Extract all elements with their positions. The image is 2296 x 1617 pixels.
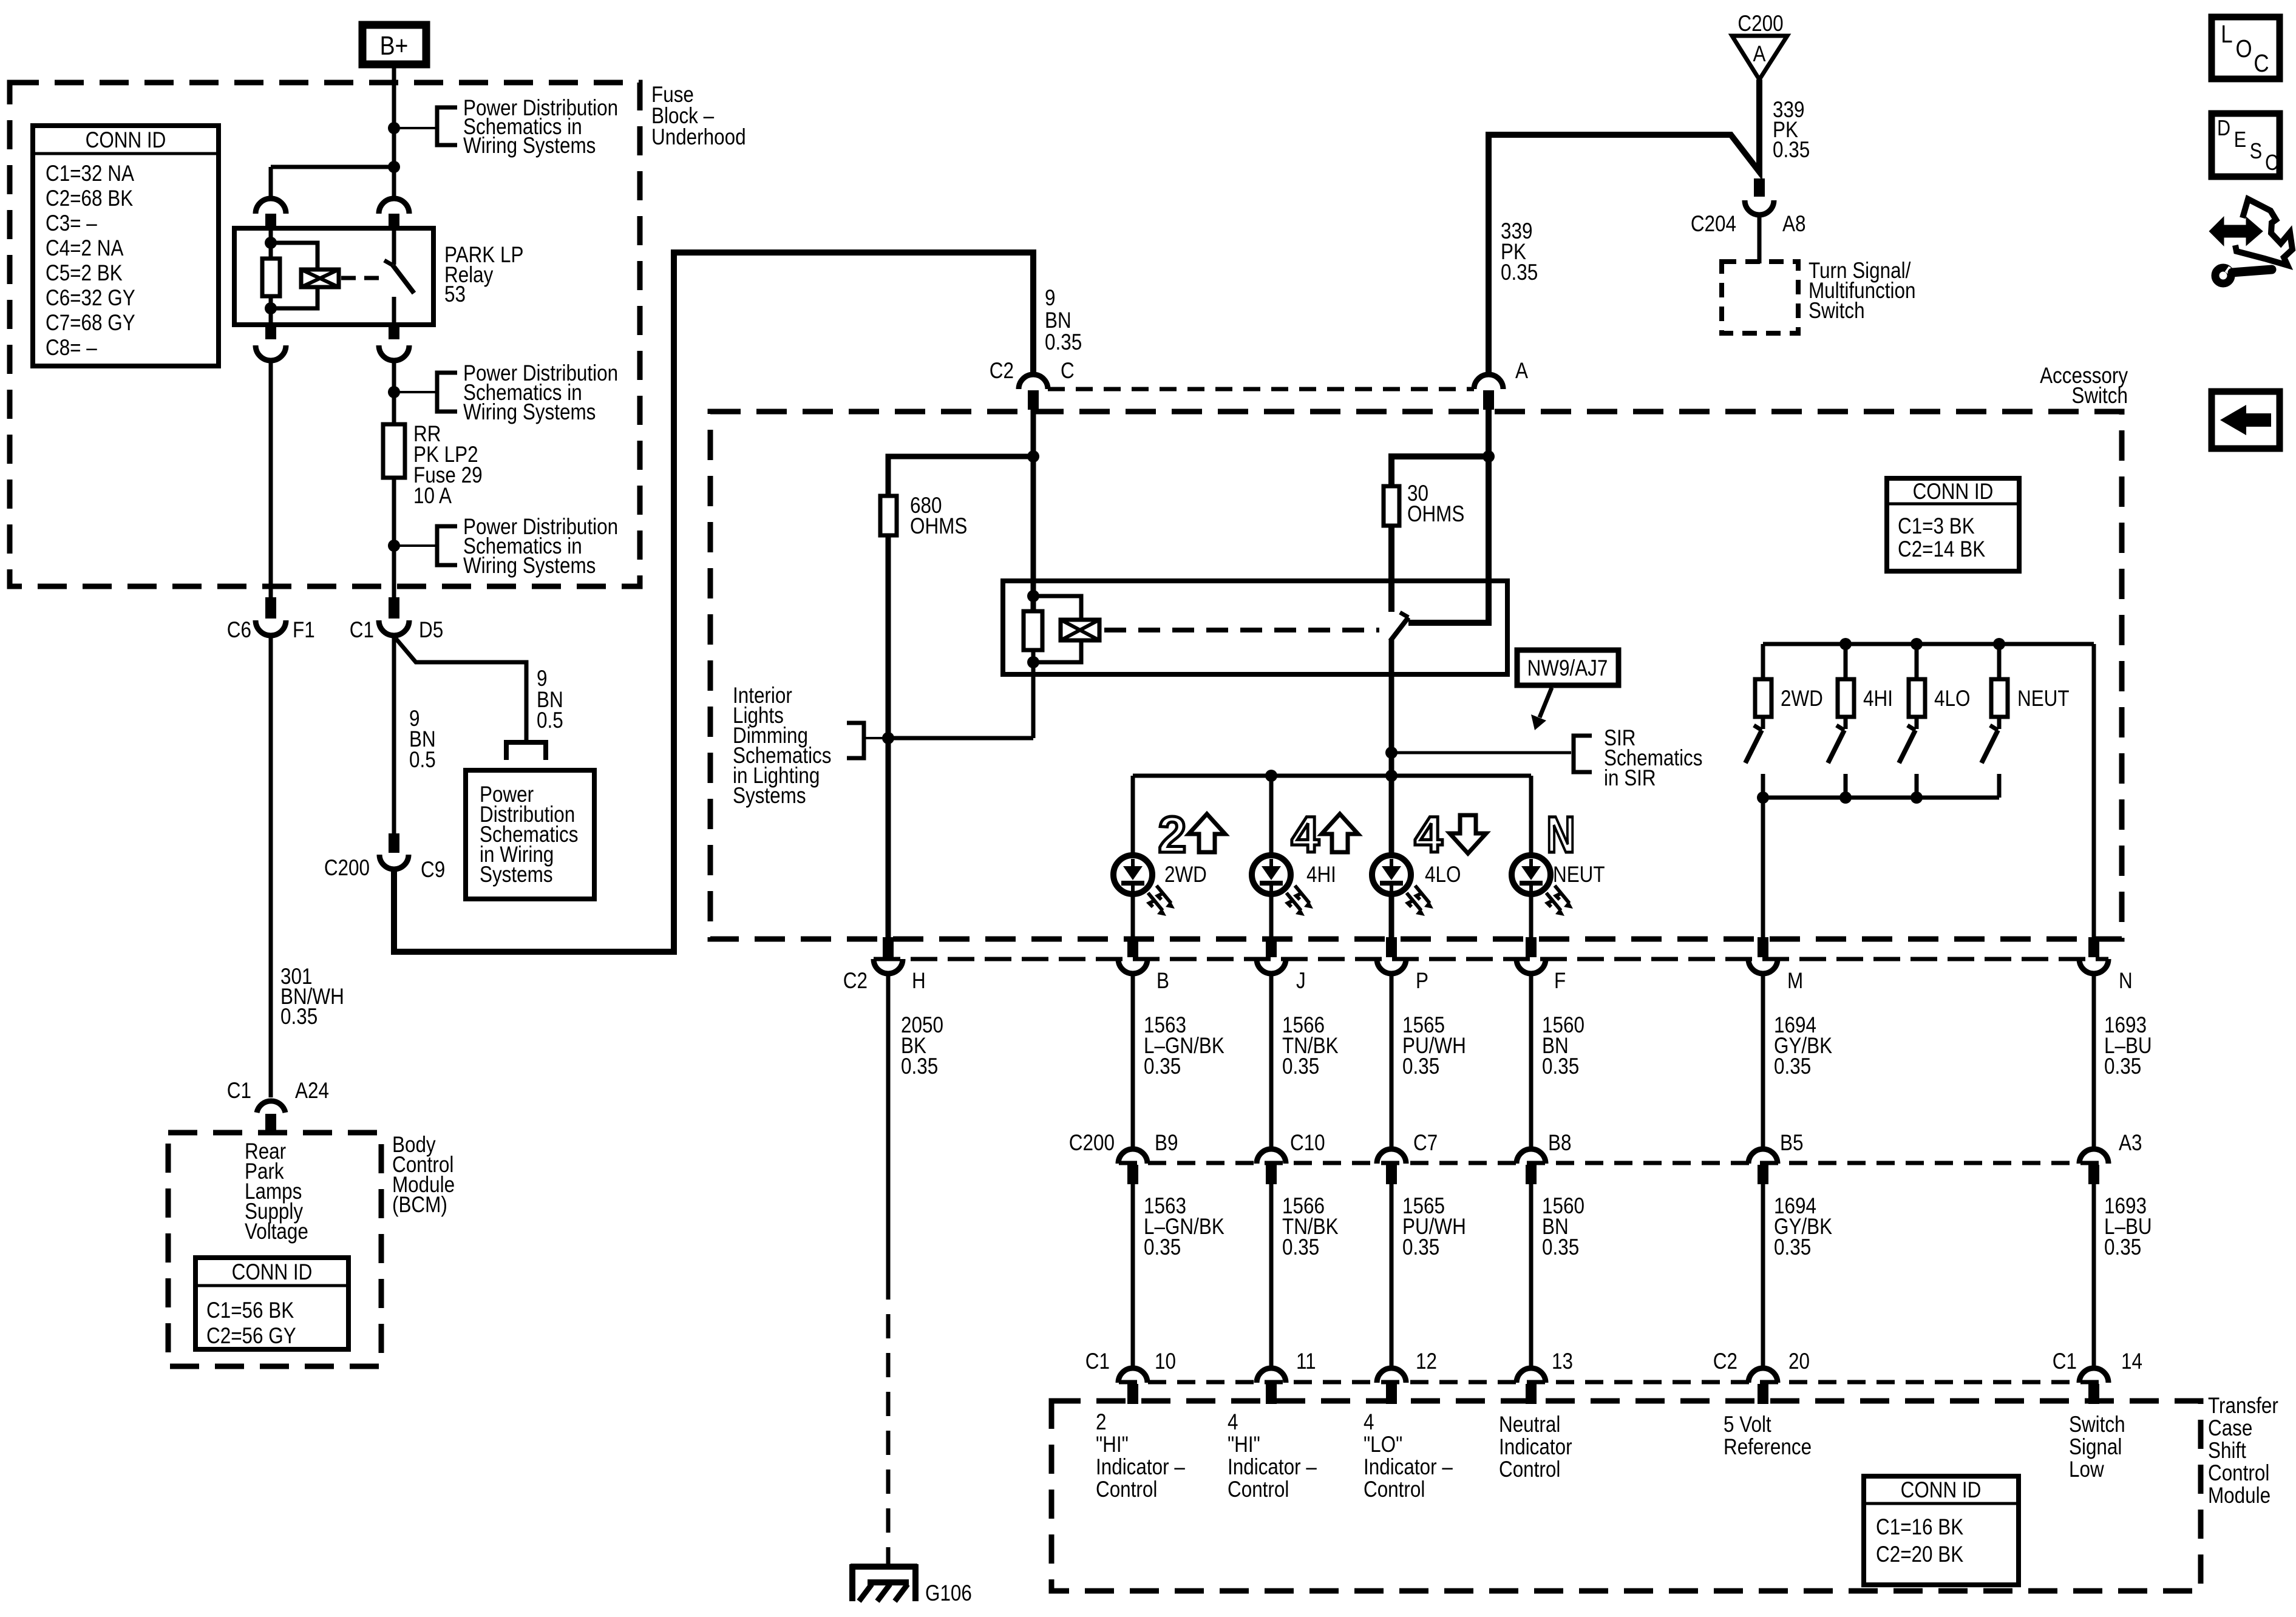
connector pin C10 xyxy=(1257,1131,1325,1184)
connector C200 C9 xyxy=(324,855,445,883)
wire P segment 2 xyxy=(1390,1184,1394,1369)
node junction 4HI switch xyxy=(1839,638,1852,650)
wire to 30 ohm resistor xyxy=(1391,456,1489,486)
svg-text:C1: C1 xyxy=(1085,1349,1110,1374)
wire tap 3 xyxy=(394,544,437,547)
svg-text:C2=56 GY: C2=56 GY xyxy=(206,1324,296,1349)
svg-text:2WD: 2WD xyxy=(1781,686,1823,711)
svg-text:Transfer: Transfer xyxy=(2208,1394,2278,1419)
label wire 1560 BN 0.35 lower xyxy=(1542,1194,1584,1260)
svg-text:P: P xyxy=(1416,969,1428,994)
svg-text:Voltage: Voltage xyxy=(245,1219,308,1244)
label Neutral Indicator Control xyxy=(1499,1412,1572,1482)
wire coil branch down xyxy=(269,167,273,198)
svg-text:B9: B9 xyxy=(1155,1131,1178,1156)
wire M segment 2 xyxy=(1761,1184,1765,1369)
svg-text:Systems: Systems xyxy=(480,863,553,887)
svg-text:0.35: 0.35 xyxy=(1501,260,1538,285)
LED 4LO indicator xyxy=(1372,855,1433,916)
svg-text:C1=56 BK: C1=56 BK xyxy=(206,1298,294,1323)
node coil bottom junction xyxy=(265,302,277,314)
switch blade NEUT xyxy=(1982,717,1999,798)
connector pin 11 xyxy=(1257,1349,1316,1404)
connector C2 pin 20 xyxy=(1713,1349,1810,1404)
pin relay switch top xyxy=(389,214,399,228)
label wire 1694 GY/BK 0.35 lower xyxy=(1774,1194,1832,1260)
svg-text:C8= –: C8= – xyxy=(46,336,98,361)
svg-text:Case: Case xyxy=(2208,1416,2252,1441)
pin C9 xyxy=(389,833,399,853)
reference box Power Distribution Schematics in Wiring Systems xyxy=(466,770,594,899)
svg-text:G106: G106 xyxy=(925,1581,972,1606)
svg-text:"HI": "HI" xyxy=(1228,1432,1260,1457)
connector C1 A24 xyxy=(227,1079,329,1113)
node junction power distribution tap 3 xyxy=(388,540,400,552)
icon 4 down arrow xyxy=(1415,806,1486,863)
svg-text:C200: C200 xyxy=(1069,1131,1115,1156)
dashed connector line row 1 xyxy=(874,957,2108,961)
connector C2 C xyxy=(990,359,1075,389)
dashed connector line C200 row xyxy=(1119,1161,2108,1165)
svg-text:C: C xyxy=(2254,50,2269,77)
switch blade 4HI xyxy=(1828,717,1846,798)
svg-text:Switch: Switch xyxy=(2071,384,2128,408)
wire SIR tap xyxy=(1391,751,1571,754)
wire N segment 2 xyxy=(2092,1184,2096,1369)
accessory switch dashed box xyxy=(710,412,2122,939)
label wire 1693 L-BU 0.35 upper xyxy=(2104,1013,2152,1079)
svg-text:C2=14 BK: C2=14 BK xyxy=(1898,537,1985,562)
svg-text:C1: C1 xyxy=(350,618,374,643)
wire mode switch feed bus xyxy=(1763,642,2094,646)
wire N segment 1 xyxy=(2092,974,2096,1150)
node coil top junction xyxy=(265,237,277,249)
wire B segment 1 xyxy=(1131,974,1135,1150)
connector pin 12 xyxy=(1377,1349,1437,1404)
relay K2 accessory switch lamp relay box xyxy=(1003,581,1507,674)
svg-text:in SIR: in SIR xyxy=(1604,766,1656,791)
icon DESC navigation box xyxy=(2212,114,2280,177)
LED NEUT indicator xyxy=(1512,855,1573,916)
resistor 2WD xyxy=(1755,679,1823,717)
label Transfer Case Shift Control Module xyxy=(2208,1394,2278,1508)
svg-text:C10: C10 xyxy=(1290,1131,1325,1156)
wire B+ feed down xyxy=(392,64,396,197)
svg-text:C5=2 BK: C5=2 BK xyxy=(46,261,123,286)
svg-text:2: 2 xyxy=(1158,806,1187,863)
wire switch bottom xyxy=(392,297,396,325)
svg-text:Indicator: Indicator xyxy=(1499,1435,1572,1460)
svg-text:0.35: 0.35 xyxy=(1282,1235,1319,1260)
svg-text:Control: Control xyxy=(1364,1477,1425,1502)
wire D5 vertical down xyxy=(392,637,396,833)
wire N branch xyxy=(2092,644,2096,937)
svg-text:53: 53 xyxy=(444,282,466,307)
svg-text:4LO: 4LO xyxy=(1425,863,1461,887)
connector arc relay pin 1 bottom xyxy=(256,345,286,361)
svg-text:B8: B8 xyxy=(1548,1131,1571,1156)
off-page reference SIR Schematics xyxy=(1574,726,1703,791)
svg-text:Switch: Switch xyxy=(2069,1412,2125,1437)
svg-text:4HI: 4HI xyxy=(1306,863,1336,887)
svg-text:(BCM): (BCM) xyxy=(392,1193,447,1218)
svg-text:NW9/AJ7: NW9/AJ7 xyxy=(1527,656,1608,681)
svg-text:C200: C200 xyxy=(1737,12,1783,36)
svg-text:Signal: Signal xyxy=(2069,1435,2122,1460)
svg-text:C1: C1 xyxy=(227,1079,251,1103)
off-page reference Power Distribution 3 xyxy=(437,515,618,578)
icon back arrow box xyxy=(2212,392,2280,449)
svg-text:J: J xyxy=(1296,969,1306,994)
pin F1 xyxy=(265,597,276,619)
svg-text:4: 4 xyxy=(1228,1410,1238,1435)
CONN ID table (transfer case module) xyxy=(1864,1476,2019,1585)
svg-text:0.35: 0.35 xyxy=(1774,1054,1811,1079)
CONN ID table (accessory switch) xyxy=(1887,478,2019,571)
svg-text:N: N xyxy=(1546,806,1575,863)
svg-text:0.35: 0.35 xyxy=(901,1054,938,1079)
svg-text:0.35: 0.35 xyxy=(1402,1054,1439,1079)
label wire 9 BN 0.35 xyxy=(1045,286,1082,355)
label 4 HI Indicator Control xyxy=(1228,1410,1317,1502)
svg-text:C204: C204 xyxy=(1691,212,1736,237)
label wire 301 BN/WH 0.35 xyxy=(280,964,344,1029)
wire jumper to relay coil branch xyxy=(271,165,394,169)
svg-text:0.35: 0.35 xyxy=(1542,1054,1579,1079)
svg-text:F: F xyxy=(1554,969,1566,994)
svg-text:0.5: 0.5 xyxy=(409,748,436,773)
connector C200 in-line reference triangle xyxy=(1732,12,1787,80)
svg-text:13: 13 xyxy=(1552,1349,1573,1374)
svg-text:0.5: 0.5 xyxy=(537,708,563,733)
connector pin C7 xyxy=(1377,1131,1438,1184)
svg-text:Indicator –: Indicator – xyxy=(1096,1455,1186,1480)
svg-text:F1: F1 xyxy=(293,618,315,643)
svg-text:A: A xyxy=(1753,42,1766,67)
node junction 30 ohm tap xyxy=(1483,450,1495,463)
svg-text:D5: D5 xyxy=(419,618,443,643)
relay K1 PARK LP Relay 53 box xyxy=(234,228,433,325)
pin relay coil top xyxy=(265,214,276,228)
label Accessory Switch xyxy=(2040,364,2128,408)
svg-text:B+: B+ xyxy=(380,30,409,61)
switch blade 4LO xyxy=(1899,717,1917,798)
label wire 1565 PU/WH 0.35 upper xyxy=(1402,1013,1466,1079)
connector pin M xyxy=(1748,937,1803,994)
svg-text:2WD: 2WD xyxy=(1164,863,1207,887)
node junction 4LO LED xyxy=(1385,770,1398,782)
node junction SIR tap xyxy=(1385,747,1398,759)
svg-text:0.35: 0.35 xyxy=(280,1005,318,1029)
label Rear Park Lamps Supply Voltage xyxy=(245,1139,308,1244)
wire 4HI LED branch xyxy=(1269,776,1274,937)
svg-text:Wiring Systems: Wiring Systems xyxy=(463,554,596,578)
resistor 4HI xyxy=(1838,679,1893,717)
wire interior lights dimming feed xyxy=(888,736,1033,741)
label wire 1560 BN 0.35 upper xyxy=(1542,1013,1584,1079)
label wire 339 PK 0.35 lower xyxy=(1501,219,1538,285)
svg-text:C7=68 GY: C7=68 GY xyxy=(46,311,135,336)
svg-text:Control: Control xyxy=(1096,1477,1157,1502)
resistor relay K2 internal xyxy=(1024,611,1042,650)
label wire 1563 L-GN/BK 0.35 lower xyxy=(1144,1194,1224,1260)
svg-text:Indicator –: Indicator – xyxy=(1364,1455,1453,1480)
wire 4LO switch branch xyxy=(1915,644,1919,679)
label 2 HI Indicator Control xyxy=(1096,1410,1186,1502)
label Turn Signal Multifunction Switch xyxy=(1809,259,1916,324)
wire 30 ohm to switch blade xyxy=(1388,526,1394,612)
svg-text:C1=32 NA: C1=32 NA xyxy=(46,161,134,186)
svg-text:Low: Low xyxy=(2069,1457,2104,1482)
label wire 2050 BK 0.35 xyxy=(901,1013,943,1079)
wire 4LO LED branch xyxy=(1390,891,1394,937)
svg-text:Reference: Reference xyxy=(1724,1435,1812,1460)
pin relay coil bottom xyxy=(265,325,276,339)
switch blade 2WD xyxy=(1745,717,1763,798)
wire to 680 ohm resistor xyxy=(888,456,1033,496)
turn signal multifunction switch dashed box xyxy=(1722,262,1798,333)
svg-text:Neutral: Neutral xyxy=(1499,1412,1560,1437)
fuse block dashed box xyxy=(10,83,640,586)
wire P segment 1 xyxy=(1390,974,1394,1150)
node junction to power distribution tap 1 xyxy=(388,122,400,134)
wire H dashed to ground xyxy=(886,1275,891,1564)
connector pin J xyxy=(1257,937,1306,994)
pin C xyxy=(1028,390,1039,410)
svg-text:0.35: 0.35 xyxy=(1774,1235,1811,1260)
callout box NW9/AJ7 xyxy=(1517,650,1618,730)
dashed actuation link K1 xyxy=(341,276,382,280)
wire left branch down to C6 F1 xyxy=(269,361,273,597)
svg-text:9: 9 xyxy=(1045,286,1055,311)
wire A down to switch xyxy=(1408,410,1489,623)
connector pin P xyxy=(1377,937,1428,994)
switch blade relay K1 xyxy=(384,260,414,293)
dashed actuation link K2 xyxy=(1104,628,1379,632)
svg-text:4LO: 4LO xyxy=(1934,686,1970,711)
node junction common 2WD xyxy=(1757,792,1769,804)
ground G106 xyxy=(851,1564,972,1606)
connector C1 pin 14 xyxy=(2053,1349,2142,1404)
resistor relay K1 internal xyxy=(262,259,280,296)
label wire 339 PK 0.35 upper xyxy=(1773,98,1810,163)
svg-text:0.35: 0.35 xyxy=(1045,330,1082,355)
off-page reference Power Distribution 2 xyxy=(437,361,618,425)
node junction common 4LO xyxy=(1911,792,1923,804)
wire 339 PK from C200 xyxy=(1489,80,1759,376)
svg-text:C6=32 GY: C6=32 GY xyxy=(46,286,135,311)
svg-text:C7: C7 xyxy=(1413,1131,1438,1156)
wire D5 diagonal branch xyxy=(396,639,526,742)
wire F segment 1 xyxy=(1529,974,1533,1150)
svg-text:Control: Control xyxy=(1499,1457,1560,1482)
svg-text:A: A xyxy=(1515,359,1528,384)
icon LOC navigation box xyxy=(2212,17,2280,79)
wire right branch to fuse xyxy=(392,361,396,424)
node junction power distribution tap 2 xyxy=(388,386,400,398)
svg-text:10 A: 10 A xyxy=(413,484,452,509)
coil relay K2 xyxy=(1061,620,1099,640)
wire 4HI switch branch xyxy=(1844,644,1848,679)
label Fuse Block Underhood xyxy=(651,83,746,150)
svg-text:0.35: 0.35 xyxy=(2104,1054,2141,1079)
svg-text:C200: C200 xyxy=(324,856,370,881)
svg-text:0.35: 0.35 xyxy=(2104,1235,2141,1260)
svg-text:C9: C9 xyxy=(421,858,445,883)
svg-text:"HI": "HI" xyxy=(1096,1432,1129,1457)
pin A24 xyxy=(265,1114,276,1132)
svg-text:Shift: Shift xyxy=(2208,1439,2246,1463)
label wire 9 BN 0.5 right xyxy=(537,666,563,733)
svg-text:CONN ID: CONN ID xyxy=(232,1260,313,1285)
svg-text:B: B xyxy=(1156,969,1169,994)
label Body Control Module (BCM) xyxy=(392,1133,455,1218)
wire below fuse xyxy=(392,478,396,597)
svg-text:D: D xyxy=(2217,117,2230,141)
svg-text:12: 12 xyxy=(1416,1349,1437,1374)
svg-text:0.35: 0.35 xyxy=(1402,1235,1439,1260)
pin A xyxy=(1483,390,1494,410)
wire J segment 2 xyxy=(1269,1184,1274,1369)
svg-text:NEUT: NEUT xyxy=(2017,686,2070,711)
svg-text:C3= –: C3= – xyxy=(46,211,98,236)
fuse F29 RR PK LP2 10A xyxy=(383,424,405,478)
svg-text:CONN ID: CONN ID xyxy=(86,128,166,153)
node junction 680 ohm tap xyxy=(1027,450,1039,463)
svg-text:Systems: Systems xyxy=(733,784,806,808)
svg-text:A24: A24 xyxy=(295,1079,329,1103)
svg-text:0.35: 0.35 xyxy=(1542,1235,1579,1260)
svg-text:C2: C2 xyxy=(1713,1349,1737,1374)
svg-text:4: 4 xyxy=(1364,1410,1374,1435)
label wire 1565 PU/WH 0.35 lower xyxy=(1402,1194,1466,1260)
svg-text:C2=68 BK: C2=68 BK xyxy=(46,186,133,211)
label PARK LP Relay 53 xyxy=(444,243,523,307)
wire coil loop xyxy=(271,243,318,308)
svg-text:CONN ID: CONN ID xyxy=(1901,1478,1982,1503)
LED 2WD indicator xyxy=(1113,855,1175,916)
wire LED feed bus xyxy=(1133,774,1531,778)
label wire 1563 L-GN/BK 0.35 upper xyxy=(1144,1013,1224,1079)
svg-text:"LO": "LO" xyxy=(1364,1432,1402,1457)
svg-text:O: O xyxy=(2235,35,2252,63)
svg-text:C1=3 BK: C1=3 BK xyxy=(1898,514,1975,539)
svg-text:CONN ID: CONN ID xyxy=(1913,480,1994,504)
off-page reference Interior Lights Dimming xyxy=(733,683,888,808)
svg-text:E: E xyxy=(2234,128,2246,152)
svg-text:C6: C6 xyxy=(227,618,251,643)
resistor NEUT xyxy=(1991,679,2070,717)
svg-text:Control: Control xyxy=(1228,1477,1289,1502)
wire NEUT LED branch xyxy=(1529,776,1533,937)
connector C6 F1 xyxy=(227,618,315,643)
svg-text:H: H xyxy=(912,969,926,994)
wire A8 to turn signal switch xyxy=(1758,216,1762,263)
pin D5 xyxy=(389,597,399,619)
connector pin B xyxy=(1118,937,1169,994)
CONN ID table (fuse block) xyxy=(33,126,219,366)
wire tap 2 xyxy=(394,391,437,393)
connector pin B5 xyxy=(1748,1131,1803,1184)
connector pin A3 xyxy=(2079,1131,2142,1184)
svg-text:C1: C1 xyxy=(2053,1349,2077,1374)
transfer case shift control module dashed box xyxy=(1051,1401,2201,1591)
body control module dashed box xyxy=(168,1133,381,1366)
svg-text:OHMS: OHMS xyxy=(910,514,967,539)
label wire 9 BN 0.5 left xyxy=(409,707,436,773)
pin A8 xyxy=(1754,178,1765,197)
svg-text:C2=20 BK: C2=20 BK xyxy=(1876,1542,1963,1567)
svg-text:BN: BN xyxy=(1045,308,1072,333)
connector arc relay pin 2 top xyxy=(379,198,409,214)
switch blade accessory xyxy=(1390,612,1408,641)
connector pin F xyxy=(1517,937,1566,994)
resistor 30 OHMS xyxy=(1384,481,1464,527)
svg-text:10: 10 xyxy=(1155,1349,1176,1374)
label Switch Signal Low xyxy=(2069,1412,2125,1482)
node junction 4LO switch xyxy=(1911,638,1923,650)
svg-text:0.35: 0.35 xyxy=(1282,1054,1319,1079)
svg-text:0.35: 0.35 xyxy=(1773,138,1810,163)
svg-text:4: 4 xyxy=(1415,806,1443,863)
wire M branch xyxy=(1761,798,1765,937)
svg-text:20: 20 xyxy=(1788,1349,1810,1374)
svg-text:L: L xyxy=(2221,21,2232,48)
wire NEUT switch branch xyxy=(1997,644,2002,679)
wire J segment 1 xyxy=(1269,974,1274,1150)
svg-text:5 Volt: 5 Volt xyxy=(1724,1412,1771,1437)
connector C204 A8 xyxy=(1691,200,1806,237)
svg-text:N: N xyxy=(2119,969,2133,994)
icon 4 up arrow xyxy=(1291,806,1358,863)
label 4 LO Indicator Control xyxy=(1364,1410,1453,1502)
svg-text:0.35: 0.35 xyxy=(1144,1054,1181,1079)
label wire 1694 GY/BK 0.35 upper xyxy=(1774,1013,1832,1079)
off-page reference Power Distribution 1 xyxy=(437,96,618,158)
svg-text:A8: A8 xyxy=(1782,212,1805,237)
LED 4HI indicator xyxy=(1252,855,1313,916)
coil relay K1 xyxy=(301,269,339,287)
wire 9 BN loop to instrument panel xyxy=(394,253,1033,952)
CONN ID table (BCM) xyxy=(195,1258,348,1349)
resistor 680 OHMS xyxy=(880,493,967,539)
svg-text:0.35: 0.35 xyxy=(1144,1235,1181,1260)
svg-text:M: M xyxy=(1787,969,1803,994)
connector A accessory switch xyxy=(1474,359,1528,389)
connector C1 D5 xyxy=(350,618,443,643)
connector arc relay pin 1 top xyxy=(256,198,286,214)
dashed connector line C1 row xyxy=(1119,1380,2108,1385)
svg-text:11: 11 xyxy=(1296,1349,1316,1374)
wire F segment 2 xyxy=(1529,1184,1533,1369)
svg-text:B5: B5 xyxy=(1780,1131,1803,1156)
svg-text:C: C xyxy=(2265,151,2278,175)
off-page bracket into power distribution box xyxy=(506,742,546,760)
battery feed B+ xyxy=(362,25,426,64)
wire F1 down to BCM xyxy=(269,637,273,1097)
node junction 4HI LED xyxy=(1265,770,1277,782)
wire B segment 2 xyxy=(1131,1184,1135,1369)
wire 680 ohm down to H xyxy=(886,535,891,937)
node junction NEUT switch xyxy=(1993,638,2005,650)
label wire 1566 TN/BK 0.35 lower xyxy=(1282,1194,1339,1260)
node coil bottom junction K2 xyxy=(1027,656,1039,668)
label wire 1566 TN/BK 0.35 upper xyxy=(1282,1013,1339,1079)
svg-text:NEUT: NEUT xyxy=(1553,863,1605,887)
pin relay switch bottom xyxy=(389,325,399,339)
svg-text:C2: C2 xyxy=(990,359,1014,384)
icon adjust vehicle wrench xyxy=(2211,199,2292,283)
